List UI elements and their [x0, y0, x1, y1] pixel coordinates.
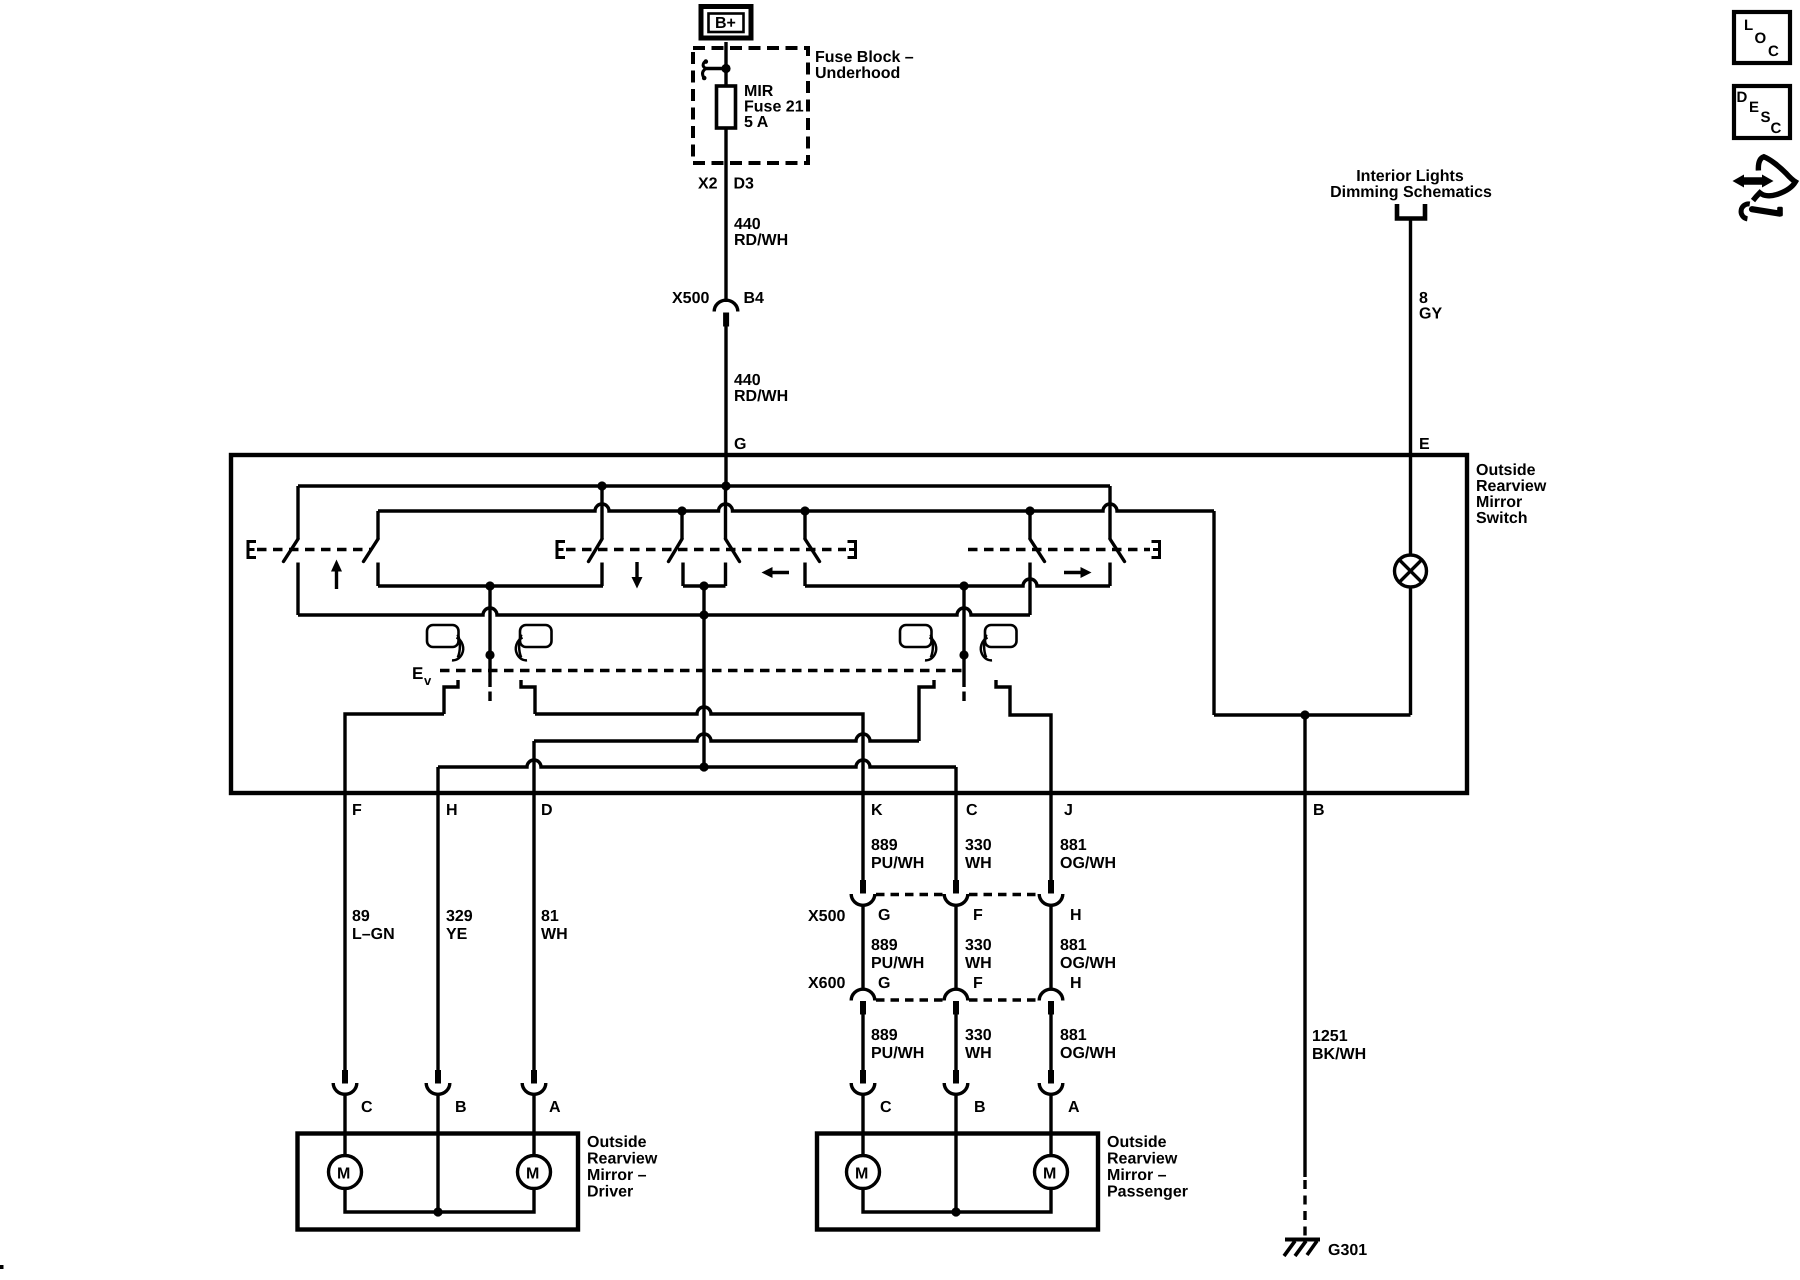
svg-text:440: 440	[734, 216, 761, 233]
connector X600 pin G	[851, 989, 875, 1014]
svg-text:OG/WH: OG/WH	[1060, 855, 1116, 872]
svg-text:D: D	[1737, 89, 1748, 106]
centre common wire	[702, 586, 705, 767]
switch up: feed leg and blade	[284, 486, 299, 615]
svg-text:OG/WH: OG/WH	[1060, 1045, 1116, 1062]
mirror icon driver left	[427, 625, 463, 660]
svg-text:Mirror: Mirror	[1476, 494, 1522, 511]
svg-text:L–GN: L–GN	[352, 926, 395, 943]
wire 81 WH to driver mirror	[532, 794, 535, 1071]
svg-text:PU/WH: PU/WH	[871, 955, 924, 972]
svg-text:881: 881	[1060, 1027, 1087, 1044]
svg-text:B4: B4	[744, 290, 765, 307]
wire K nested line with hop	[535, 707, 863, 794]
DESC reference box	[1734, 86, 1790, 138]
svg-text:89: 89	[352, 908, 370, 925]
svg-text:v: v	[424, 673, 432, 688]
mirror icon passenger left	[900, 625, 936, 660]
stray mark bottom left	[0, 1265, 4, 1269]
svg-text:8: 8	[1419, 290, 1428, 307]
svg-text:YE: YE	[446, 926, 468, 943]
svg-text:G: G	[734, 436, 746, 453]
label Ev	[412, 664, 432, 688]
LOC reference box	[1734, 12, 1790, 63]
driver mirror connector pin A	[522, 1070, 561, 1116]
svg-text:889: 889	[871, 1027, 898, 1044]
passenger mirror internal common	[863, 1189, 1051, 1213]
mech dashed link left/right	[968, 548, 1150, 551]
second bus with hops	[378, 504, 1214, 511]
wire: B+ feed into fuse block	[724, 42, 727, 86]
driver select wire	[488, 586, 491, 687]
wire C output	[954, 767, 957, 794]
switch down second pole: feed and blade	[669, 511, 684, 586]
svg-text:5 A: 5 A	[744, 114, 769, 131]
lower contact bar up/down	[378, 584, 603, 587]
mech dashed link up/down	[257, 548, 371, 551]
battery feed tap hook	[702, 59, 726, 80]
wire label 440 RD/WH (upper)	[734, 216, 788, 249]
wire 330 WH lower	[954, 1013, 957, 1071]
svg-text:C: C	[361, 1099, 373, 1116]
svg-text:M: M	[526, 1166, 539, 1183]
wire 881 OG/WH middle	[1049, 905, 1052, 990]
off-page connector bracket	[1397, 204, 1425, 219]
svg-text:O: O	[1755, 30, 1767, 47]
svg-text:B: B	[974, 1099, 986, 1116]
junction dot at tap	[721, 64, 730, 73]
mech coupling bracket reversed (centre)	[848, 542, 856, 558]
svg-text:F: F	[973, 907, 983, 924]
wire 881 OG/WH lower	[1049, 1013, 1052, 1071]
svg-text:WH: WH	[965, 955, 992, 972]
passenger select left contact bracket to D line	[919, 680, 934, 741]
down arrow	[632, 562, 643, 589]
svg-text:H: H	[1070, 907, 1082, 924]
switch centre pole from G: blade	[726, 486, 740, 586]
switch left: feed and blade	[805, 511, 820, 586]
mirror icon driver right	[516, 625, 552, 660]
svg-text:OG/WH: OG/WH	[1060, 955, 1116, 972]
passenger mirror box	[817, 1134, 1098, 1230]
svg-text:F: F	[973, 975, 983, 992]
lower contact bar left/right with hop	[805, 579, 1110, 586]
svg-text:WH: WH	[541, 926, 568, 943]
label Fuse Block - Underhood	[815, 49, 914, 82]
svg-text:G301: G301	[1328, 1242, 1367, 1259]
return bus with hops	[298, 608, 1030, 615]
svg-text:Rearview: Rearview	[1476, 478, 1547, 495]
mirror select mech dashed line Ev	[440, 669, 964, 672]
junction dot B tap	[1300, 710, 1309, 719]
mirror icon passenger right	[981, 625, 1017, 660]
svg-text:Mirror –: Mirror –	[1107, 1167, 1167, 1184]
wire 329 YE to driver mirror	[436, 794, 439, 1071]
svg-text:Mirror –: Mirror –	[587, 1167, 647, 1184]
passenger mirror motor left/right	[1035, 1156, 1068, 1189]
svg-text:WH: WH	[965, 855, 992, 872]
up arrow	[331, 560, 342, 590]
svg-text:C: C	[966, 802, 978, 819]
passenger mirror connector pin A	[1039, 1070, 1080, 1116]
junction dot top bus x726	[721, 481, 730, 490]
svg-text:GY: GY	[1419, 306, 1442, 323]
wire F output	[345, 714, 444, 794]
label Outside Rearview Mirror - Driver	[587, 1134, 658, 1201]
top feed bus	[298, 484, 1110, 487]
wire: fuse to connector X500 B4	[724, 128, 727, 302]
driver select left contact bracket to F	[444, 680, 458, 714]
wire H C common nested line with hops	[438, 760, 956, 767]
svg-text:RD/WH: RD/WH	[734, 232, 788, 249]
driver mirror connector pin B	[426, 1070, 466, 1116]
wire H output	[436, 767, 439, 794]
wire 889 PU/WH lower	[861, 1013, 864, 1071]
svg-text:M: M	[337, 1166, 350, 1183]
svg-text:330: 330	[965, 937, 992, 954]
wire 1251 BK/WH ground lead	[1303, 794, 1306, 1177]
svg-text:J: J	[1064, 802, 1073, 819]
svg-text:X2: X2	[698, 176, 718, 193]
svg-text:889: 889	[871, 937, 898, 954]
junction dot second bus x1030	[1025, 506, 1034, 515]
svg-text:PU/WH: PU/WH	[871, 855, 924, 872]
dashed continuation to ground	[1303, 1180, 1306, 1237]
svg-text:E: E	[1749, 99, 1759, 116]
junction dot top bus x602	[597, 481, 606, 490]
svg-text:S: S	[1761, 109, 1771, 126]
svg-text:Fuse Block –: Fuse Block –	[815, 49, 914, 66]
svg-text:F: F	[352, 802, 362, 819]
svg-text:C: C	[1771, 120, 1782, 137]
svg-text:889: 889	[871, 837, 898, 854]
left arrow	[762, 567, 790, 578]
svg-text:B: B	[1313, 802, 1325, 819]
label Interior Lights Dimming Schematics	[1330, 168, 1492, 201]
junction dot second bus x682	[677, 506, 686, 515]
svg-text:C: C	[880, 1099, 892, 1116]
svg-text:81: 81	[541, 908, 559, 925]
svg-text:WH: WH	[965, 1045, 992, 1062]
junction dot return bus centre	[699, 610, 708, 619]
X500 dashed connector line	[876, 893, 943, 896]
lamp return line	[1214, 713, 1411, 716]
svg-text:Rearview: Rearview	[587, 1151, 658, 1168]
svg-text:C: C	[1768, 43, 1779, 60]
ground G301	[1284, 1240, 1320, 1257]
connector X600 pin F	[944, 989, 968, 1014]
passenger mirror motor up/down	[847, 1156, 880, 1189]
svg-text:M: M	[855, 1166, 868, 1183]
wire D corner	[532, 741, 535, 794]
svg-text:B+: B+	[715, 15, 736, 32]
outside rearview mirror switch box	[231, 455, 1467, 793]
svg-text:Fuse 21: Fuse 21	[744, 99, 804, 116]
mech coupling bracket reversed (right)	[1152, 542, 1160, 558]
passenger select wire	[962, 586, 965, 687]
svg-text:Switch: Switch	[1476, 510, 1528, 527]
svg-text:1251: 1251	[1312, 1028, 1348, 1045]
wire 881 OG/WH upper	[1049, 794, 1052, 881]
wire 89 L-GN to driver mirror	[343, 794, 346, 1071]
junction dot passenger select	[959, 581, 968, 590]
connector X600 pin H	[1039, 989, 1063, 1014]
svg-text:Underhood: Underhood	[815, 65, 900, 82]
svg-text:E: E	[1419, 436, 1430, 453]
svg-text:440: 440	[734, 372, 761, 389]
junction dot centre common at nested line	[699, 762, 708, 771]
connector X500 pin F	[944, 880, 968, 905]
svg-text:BK/WH: BK/WH	[1312, 1046, 1366, 1063]
svg-text:X600: X600	[808, 975, 845, 992]
pin labels F H D K C J B	[352, 802, 1325, 819]
svg-text:H: H	[1070, 975, 1082, 992]
wire label 8 GY	[1419, 290, 1442, 323]
svg-text:H: H	[446, 802, 458, 819]
switch up second pole: feed and blade	[364, 511, 379, 586]
wire B output	[1303, 715, 1306, 794]
svg-text:X500: X500	[808, 908, 845, 925]
svg-text:Outside: Outside	[587, 1134, 647, 1151]
mech coupling bracket E (up/down left)	[248, 542, 256, 558]
centre contact U bar	[683, 584, 726, 587]
labels X2 D3	[698, 176, 754, 193]
passenger mirror connector pin B	[944, 1070, 985, 1116]
switch right second pole: feed leg and blade	[1110, 486, 1125, 586]
wire 889 PU/WH upper	[861, 794, 864, 881]
wires into driver mirror	[343, 1093, 346, 1156]
label Outside Rearview Mirror Switch	[1476, 462, 1547, 527]
labels X500 G F H	[808, 907, 1082, 925]
wire 330 WH upper	[954, 794, 957, 881]
svg-text:Interior Lights: Interior Lights	[1356, 168, 1464, 185]
wire: G feed inside box	[724, 455, 727, 486]
svg-text:M: M	[1043, 1166, 1056, 1183]
svg-text:RD/WH: RD/WH	[734, 388, 788, 405]
driver mirror connector pin C	[333, 1070, 373, 1116]
mirror adjust icon	[1733, 157, 1796, 219]
svg-text:A: A	[1068, 1099, 1080, 1116]
fuse MIR Fuse 21 5 A	[717, 86, 736, 128]
svg-text:329: 329	[446, 908, 473, 925]
svg-text:K: K	[871, 802, 883, 819]
wire: dimming feed to E pin	[1409, 218, 1412, 455]
junction dot centre	[699, 581, 708, 590]
passenger select right contact bracket to J	[996, 680, 1051, 794]
svg-text:E: E	[412, 664, 423, 683]
connector X500 pin B4	[714, 300, 738, 326]
X600 dashed connector line	[876, 998, 943, 1001]
label Outside Rearview Mirror - Passenger	[1107, 1134, 1188, 1201]
svg-text:Rearview: Rearview	[1107, 1151, 1178, 1168]
junction dot driver select	[485, 581, 494, 590]
wires into passenger mirror	[861, 1093, 864, 1156]
passenger mirror connector pin C	[851, 1070, 892, 1116]
driver select right contact bracket to K line	[521, 680, 535, 714]
right arrow	[1064, 567, 1092, 578]
wire 330 WH middle	[954, 905, 957, 990]
svg-text:Passenger: Passenger	[1107, 1184, 1188, 1201]
wire 889 PU/WH middle	[861, 905, 864, 990]
wire label 440 RD/WH (lower)	[734, 372, 788, 405]
svg-text:330: 330	[965, 837, 992, 854]
svg-text:881: 881	[1060, 837, 1087, 854]
svg-text:A: A	[549, 1099, 561, 1116]
switch down: feed leg and blade	[589, 486, 603, 586]
connector X500 pin G	[851, 880, 875, 905]
driver mirror motor left/right	[518, 1156, 551, 1189]
svg-text:Outside: Outside	[1476, 462, 1536, 479]
driver mirror box	[298, 1134, 579, 1230]
svg-text:Outside: Outside	[1107, 1134, 1167, 1151]
svg-text:330: 330	[965, 1027, 992, 1044]
connector X500 pin H	[1039, 880, 1063, 905]
svg-text:MIR: MIR	[744, 83, 774, 100]
driver mirror internal common	[345, 1189, 534, 1213]
labels X600 G F H	[808, 975, 1082, 992]
wire: connector to switch G pin	[724, 327, 727, 456]
switch right: feed and blade	[1030, 511, 1045, 615]
right leg from second bus to lamp line	[1212, 511, 1215, 715]
svg-text:L: L	[1744, 17, 1753, 34]
svg-text:PU/WH: PU/WH	[871, 1045, 924, 1062]
svg-text:D: D	[541, 802, 553, 819]
svg-text:X500: X500	[672, 290, 709, 307]
svg-text:D3: D3	[734, 176, 755, 193]
svg-text:G: G	[878, 975, 890, 992]
fuse block underhood dashed box	[693, 48, 808, 163]
mech dashed link centre	[566, 548, 846, 551]
illumination lamp	[1395, 455, 1427, 715]
mech coupling bracket E (centre)	[557, 542, 565, 558]
svg-text:G: G	[878, 907, 890, 924]
driver mirror motor up/down	[329, 1156, 362, 1189]
svg-text:Driver: Driver	[587, 1184, 633, 1201]
wire D nested line with hops	[534, 734, 919, 741]
svg-text:Dimming Schematics: Dimming Schematics	[1330, 184, 1492, 201]
junction dot second bus x805	[800, 506, 809, 515]
svg-text:881: 881	[1060, 937, 1087, 954]
svg-text:B: B	[455, 1099, 467, 1116]
B+ battery terminal box	[701, 7, 751, 39]
